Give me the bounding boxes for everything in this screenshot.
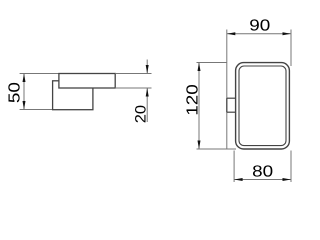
svg-text:50: 50: [6, 82, 23, 103]
dim 50 top extension line: [20, 73, 60, 75]
dim 80 left extension line: [233, 151, 235, 183]
front view outer body: [236, 63, 290, 149]
dim 120 top extension line: [197, 62, 227, 64]
side view arm bar: [59, 74, 115, 89]
dim 90 arrow right: [283, 32, 292, 35]
mounting tab left edge: [226, 98, 228, 112]
dim 20 top extension line: [115, 73, 151, 75]
dim 20 arrow down: [146, 65, 149, 74]
dim 80 arrow left: [234, 178, 243, 181]
dim 50 arrow down: [23, 101, 26, 110]
dim 120 bottom extension line: [197, 148, 237, 150]
dim 90 right extension line: [290, 30, 292, 67]
dim 80 dimension line: [234, 179, 291, 181]
dim 90 dimension line: [227, 33, 291, 35]
svg-text:90: 90: [249, 17, 270, 34]
svg-text:80: 80: [252, 163, 273, 180]
dim 50 bottom extension line: [20, 109, 53, 111]
front view left edge / dim 90 left extension line: [226, 30, 228, 150]
dim 120 arrow up: [198, 63, 201, 72]
dim 80 right extension line: [290, 151, 292, 183]
dim 120 arrow down: [198, 141, 201, 150]
front view inner rim: [239, 66, 286, 146]
svg-text:20: 20: [132, 105, 149, 123]
dim 20 lower leader line: [146, 88, 148, 122]
dim 80 arrow right: [283, 178, 292, 181]
dim 120 dimension line: [198, 63, 200, 150]
dim 90 arrow left: [227, 32, 236, 35]
side view wall plate: [53, 81, 93, 110]
svg-text:120: 120: [184, 84, 201, 116]
dim 20 bottom extension line: [115, 87, 151, 89]
dim 50 dimension line: [23, 74, 25, 110]
dim 20 upper leader line: [146, 60, 148, 74]
dim 20 arrow up: [146, 88, 149, 97]
dim 50 arrow up: [23, 74, 26, 83]
mounting tab top edge: [227, 97, 236, 99]
mounting tab bottom edge: [227, 111, 236, 113]
